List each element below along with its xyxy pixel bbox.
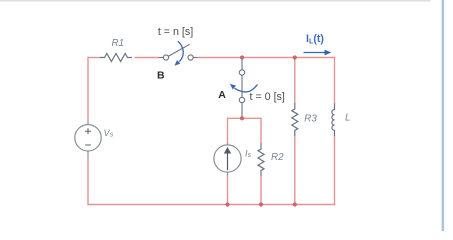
wire: bottom horizontal xyxy=(87,204,335,206)
wire: R2 branch lower vertical xyxy=(260,176,262,205)
top separator line xyxy=(0,0,431,2)
switch A blue arc xyxy=(235,85,258,92)
svg-text:t = 0 [s]: t = 0 [s] xyxy=(250,91,285,103)
svg-text:B: B xyxy=(157,70,165,82)
resistor R3 xyxy=(292,103,298,136)
switch A xyxy=(239,59,244,118)
current arrow IL(t) xyxy=(304,52,326,54)
svg-text:t = n [s]: t = n [s] xyxy=(158,26,193,38)
wire: R2 branch upper vertical xyxy=(260,118,262,144)
wire: Is branch lower vertical xyxy=(227,175,229,205)
wire: top-left horizontal segment xyxy=(88,57,101,59)
node: bottom junction R2 branch xyxy=(259,202,263,206)
svg-text:L: L xyxy=(345,113,350,124)
wire: L branch top vertical xyxy=(334,57,336,104)
voltage source Vs xyxy=(75,122,101,158)
svg-text:R1: R1 xyxy=(112,38,125,49)
svg-text:IL(t): IL(t) xyxy=(306,33,324,46)
resistor R2 xyxy=(258,143,264,176)
resistor R1 xyxy=(100,54,132,62)
svg-text:R2: R2 xyxy=(271,152,284,163)
wire: box horizontal below switch A xyxy=(228,117,262,119)
wire: left vertical (corner to Vs top) xyxy=(87,57,89,122)
node: top junction at switch A xyxy=(240,55,244,59)
svg-text:A: A xyxy=(218,89,226,101)
switch B blue arc xyxy=(178,41,183,62)
inductor L xyxy=(332,104,335,137)
wire: Is branch upper vertical xyxy=(227,118,229,144)
node: bottom junction Is branch xyxy=(225,202,229,206)
wire: top, R1 to switch B xyxy=(135,57,160,59)
svg-text:Vs: Vs xyxy=(104,128,114,139)
wire: Vs bottom to bottom-left corner xyxy=(87,157,89,205)
wire: L branch bottom vertical xyxy=(334,136,336,206)
svg-text:R3: R3 xyxy=(304,114,317,125)
wire: R3 branch top vertical xyxy=(294,58,296,104)
switch B xyxy=(159,44,198,60)
node: top junction at R3 branch xyxy=(293,55,297,59)
right page border xyxy=(442,0,445,231)
svg-text:Is: Is xyxy=(245,149,252,160)
wire: R3 branch bottom vertical xyxy=(294,136,296,205)
node: junction below switch A xyxy=(240,116,244,120)
wire: top, switch B to right corner xyxy=(198,57,336,59)
node: bottom junction R3 branch xyxy=(293,202,297,206)
current source Is xyxy=(214,143,241,175)
